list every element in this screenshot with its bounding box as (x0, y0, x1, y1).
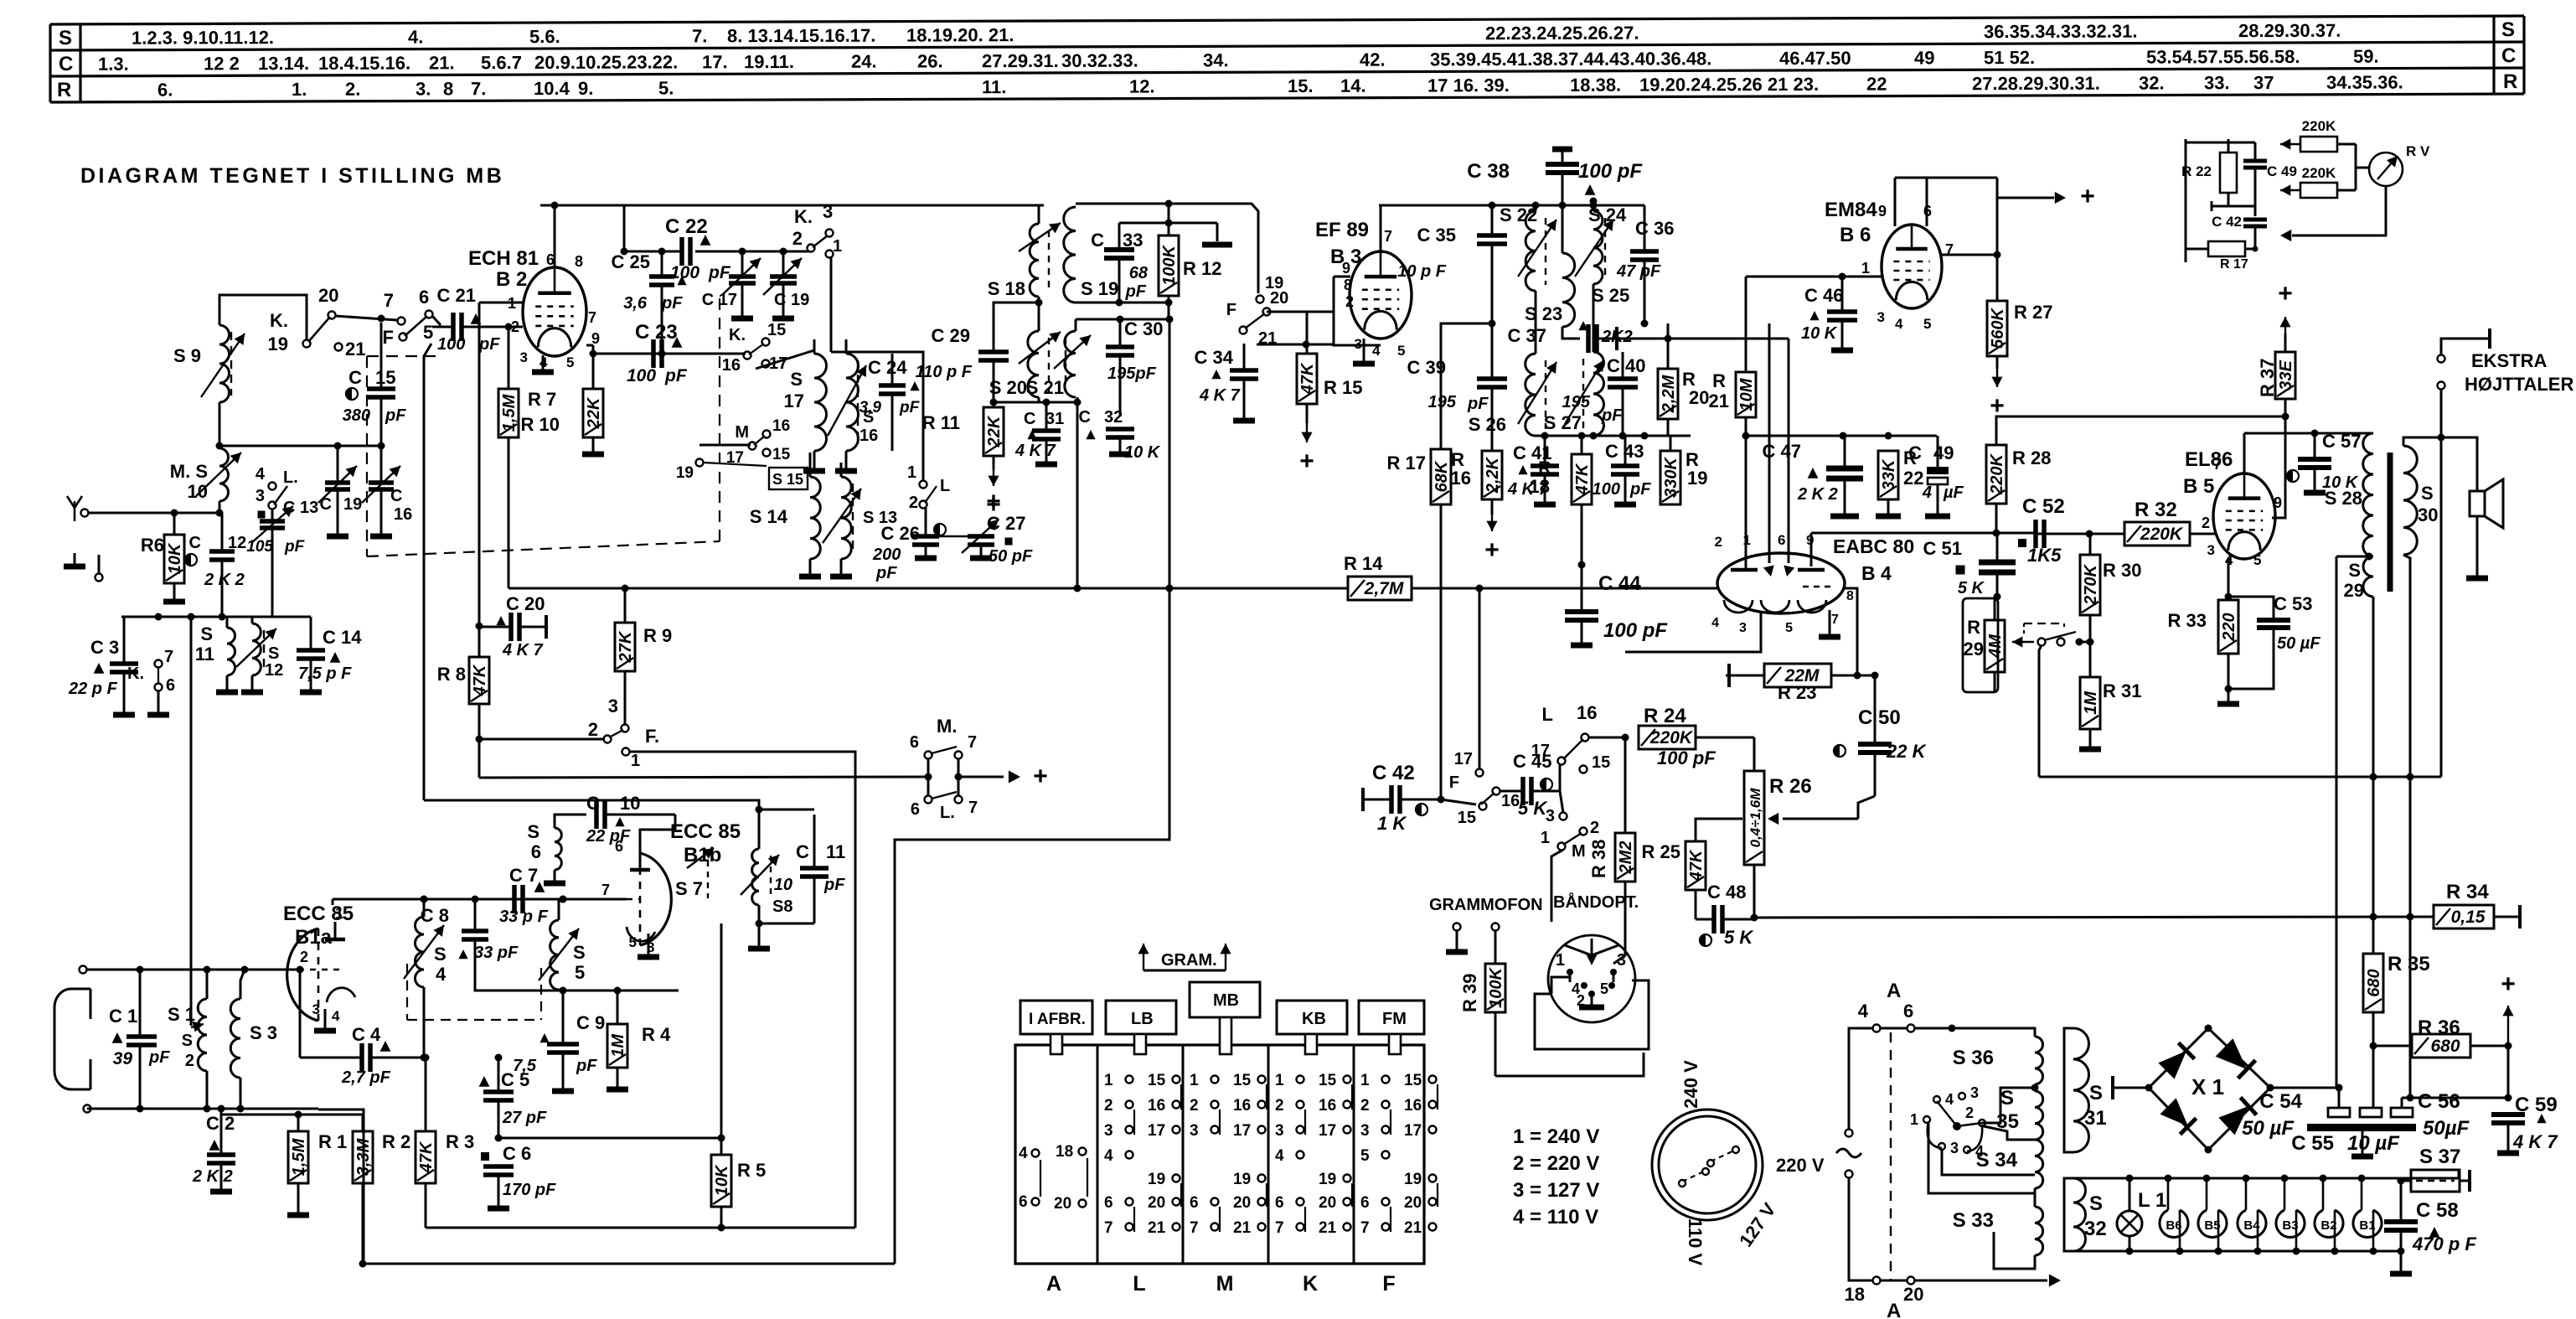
wire rail top y245 (540, 204, 1044, 207)
svg-text:C: C (59, 53, 73, 75)
svg-text:19: 19 (1404, 1171, 1422, 1188)
svg-text:C 6: C 6 (503, 1143, 531, 1164)
svg-text:15: 15 (1458, 809, 1476, 827)
wire grid row to C4 row (299, 970, 302, 1058)
wire pin9 rail y636 (1810, 533, 1813, 566)
svg-text:32.: 32. (2139, 72, 2165, 93)
svg-text:10: 10 (774, 876, 792, 894)
svg-text:9: 9 (1342, 260, 1350, 277)
svg-text:49: 49 (1914, 47, 1934, 68)
svg-text:S 28: S 28 (2325, 488, 2362, 509)
wire rail y736 (121, 616, 258, 618)
svg-text:EKSTRA: EKSTRA (2471, 350, 2548, 371)
svg-text:16: 16 (1233, 1097, 1251, 1115)
svg-text:15: 15 (375, 367, 395, 388)
svg-text:8: 8 (1344, 277, 1352, 293)
svg-text:C 42: C 42 (2212, 214, 2242, 230)
svg-text:6: 6 (1190, 1194, 1199, 1212)
wire speaker feed (2441, 437, 2477, 491)
wire rail y520 above EABC80 (1746, 435, 1937, 437)
svg-text:8. 13.14.15.16.17.: 8. 13.14.15.16.17. (727, 25, 875, 47)
svg-text:R 3: R 3 (446, 1131, 474, 1152)
svg-text:S: S (2348, 560, 2361, 581)
svg-text:22.23.24.25.26.27.: 22.23.24.25.26.27. (1485, 23, 1639, 44)
svg-text:10: 10 (188, 481, 208, 502)
svg-text:K.: K. (794, 206, 813, 227)
svg-text:68: 68 (1129, 264, 1149, 282)
svg-text:S 9: S 9 (173, 345, 201, 366)
svg-text:1: 1 (1104, 1072, 1113, 1089)
svg-text:1: 1 (1275, 1072, 1284, 1089)
svg-text:13.14.: 13.14. (258, 53, 309, 74)
svg-text:R 38: R 38 (1588, 840, 1609, 878)
svg-text:MB: MB (1213, 991, 1239, 1010)
svg-text:7: 7 (968, 799, 978, 817)
svg-text:R 27: R 27 (2014, 302, 2052, 323)
svg-text:16: 16 (860, 427, 878, 445)
svg-text:4 K 7: 4 K 7 (2512, 1131, 2558, 1152)
wire long vertical to FM section (190, 617, 193, 1026)
svg-text:C: C (1079, 408, 1091, 427)
svg-text:2: 2 (300, 949, 308, 965)
svg-text:A: A (1046, 1272, 1061, 1296)
wire antenna to R6/C12 (89, 512, 222, 515)
svg-text:17 16. 39.: 17 16. 39. (1427, 75, 1510, 96)
svg-text:S: S (2501, 18, 2515, 41)
svg-text:7.: 7. (471, 78, 486, 99)
button LB (1106, 1001, 1176, 1034)
svg-text:15: 15 (772, 446, 791, 463)
svg-text:L: L (940, 477, 950, 495)
svg-text:pF: pF (875, 564, 897, 582)
svg-text:S 14: S 14 (750, 506, 788, 527)
svg-text:S 18: S 18 (988, 278, 1025, 299)
svg-text:5: 5 (2253, 552, 2261, 568)
svg-text:9: 9 (1878, 203, 1887, 220)
wire ECH81 pin1 grid column (479, 302, 524, 304)
svg-text:2,7 pF: 2,7 pF (341, 1068, 391, 1087)
tube heaters B6..B1 (2160, 1210, 2188, 1237)
svg-text:220K: 220K (2302, 118, 2336, 134)
svg-text:6.: 6. (157, 80, 173, 101)
svg-text:R 10: R 10 (521, 414, 560, 435)
svg-text:1: 1 (1910, 1111, 1918, 1128)
svg-text:C 53: C 53 (2274, 593, 2312, 614)
arrow + below R11 (993, 469, 994, 486)
svg-text:+: + (2501, 970, 2516, 998)
wire EM84 pin1 left to C46 and R21 (1746, 276, 1882, 278)
svg-text:R 39: R 39 (1459, 974, 1480, 1012)
svg-text:21: 21 (1709, 391, 1729, 411)
svg-text:C 23: C 23 (635, 321, 678, 344)
svg-text:C 38: C 38 (1467, 160, 1510, 183)
svg-text:4: 4 (1945, 1091, 1954, 1108)
svg-text:0,4÷1,6M: 0,4÷1,6M (1747, 788, 1763, 848)
dashed mains divider (1890, 1032, 1892, 1280)
voltage selector dial (1652, 1110, 1763, 1220)
svg-text:2: 2 (1345, 293, 1354, 310)
wire S28/S29 tap to left vertical (2336, 556, 2369, 558)
svg-text:pF: pF (1601, 406, 1623, 425)
svg-text:R 7: R 7 (528, 389, 556, 410)
svg-text:6: 6 (419, 287, 429, 308)
svg-text:B 6: B 6 (1840, 224, 1871, 246)
svg-text:7: 7 (164, 648, 173, 666)
X1 left input terminal (2119, 1087, 2149, 1089)
heater top rail (2073, 1177, 2459, 1180)
svg-text:330K: 330K (1662, 457, 1680, 498)
svg-text:A: A (1887, 1300, 1901, 1319)
svg-text:S 22: S 22 (1500, 204, 1537, 225)
svg-text:18: 18 (1056, 1143, 1073, 1161)
svg-text:17: 17 (1148, 1122, 1165, 1140)
220K resistor top (2300, 137, 2337, 152)
svg-text:L 1: L 1 (2138, 1189, 2166, 1212)
svg-text:C 58: C 58 (2416, 1199, 2459, 1222)
svg-text:105: 105 (246, 538, 273, 556)
svg-text:19: 19 (676, 464, 694, 482)
svg-text:2M2: 2M2 (1617, 841, 1635, 875)
svg-text:6: 6 (531, 841, 541, 862)
svg-text:pF: pF (385, 406, 406, 425)
svg-text:2 = 220 V: 2 = 220 V (1513, 1152, 1599, 1175)
capacitor C42 small top right (2243, 218, 2267, 222)
svg-text:220: 220 (2220, 613, 2238, 641)
svg-text:16: 16 (772, 417, 790, 435)
svg-text:pF: pF (478, 335, 500, 354)
svg-text:S: S (182, 1032, 193, 1050)
svg-text:220K: 220K (2302, 165, 2336, 181)
svg-text:220K: 220K (1649, 728, 1694, 747)
band switch table frame (1015, 1045, 1424, 1264)
svg-text:C 40: C 40 (1607, 355, 1645, 376)
svg-text:GRAMMOFON: GRAMMOFON (1429, 896, 1543, 914)
svg-text:EL86: EL86 (2185, 448, 2233, 471)
svg-text:1,5M: 1,5M (290, 1137, 308, 1176)
svg-text:C 36: C 36 (1635, 218, 1674, 239)
svg-text:2: 2 (1715, 534, 1722, 550)
svg-text:R 17: R 17 (2220, 257, 2248, 272)
svg-text:1: 1 (335, 905, 343, 922)
svg-text:2.: 2. (345, 79, 360, 100)
svg-text:R: R (57, 79, 71, 101)
svg-text:50 µF: 50 µF (2277, 634, 2320, 653)
svg-text:2: 2 (1590, 819, 1599, 837)
svg-text:pF: pF (1629, 480, 1651, 499)
svg-text:R 35: R 35 (2388, 953, 2430, 975)
svg-text:C 7: C 7 (509, 865, 538, 886)
arrow wire from RV down (2292, 186, 2386, 235)
RV meter circle (2369, 153, 2403, 186)
svg-text:S 20: S 20 (989, 377, 1027, 398)
svg-text:470 p F: 470 p F (2412, 1234, 2476, 1254)
svg-text:S8: S8 (772, 897, 792, 916)
svg-text:+: + (1484, 536, 1500, 564)
svg-text:3: 3 (1360, 1122, 1370, 1140)
svg-text:4.: 4. (408, 26, 423, 47)
svg-text:+: + (1299, 447, 1314, 475)
svg-text:F: F (383, 327, 394, 348)
svg-text:31: 31 (1045, 410, 1064, 428)
top right RC network box (2185, 139, 2187, 262)
capacitor C56 50uF (2391, 1108, 2413, 1117)
svg-text:C 4: C 4 (352, 1024, 381, 1045)
svg-text:+: + (2278, 280, 2293, 308)
svg-text:C: C (1091, 230, 1104, 251)
wire vertical x506 down to rail y955 (424, 344, 431, 800)
svg-text:C 42: C 42 (1372, 762, 1415, 784)
mains plug terminals (1846, 1130, 1853, 1137)
svg-text:HØJTTALER: HØJTTALER (2465, 374, 2573, 395)
svg-text:R6: R6 (141, 535, 164, 556)
GRAM arrows (1143, 944, 1144, 970)
svg-text:S: S (573, 942, 586, 963)
svg-text:15: 15 (1592, 753, 1610, 772)
wire EM84 pin7 to R27 column (1942, 254, 1997, 256)
svg-text:6: 6 (615, 838, 623, 855)
wire rail y300 with C22 (624, 251, 682, 253)
svg-text:R: R (1712, 370, 1726, 391)
wire plate top to rail y245 (554, 205, 556, 267)
variable capacitor C19b (770, 274, 797, 279)
svg-text:pF: pF (708, 263, 731, 282)
svg-text:20: 20 (1903, 1284, 1923, 1305)
svg-text:20: 20 (318, 285, 338, 306)
speaker ground (2476, 516, 2479, 577)
coil S8 (752, 849, 759, 905)
svg-text:1.: 1. (292, 79, 307, 100)
svg-text:5: 5 (1360, 1147, 1370, 1165)
svg-text:R 11: R 11 (922, 412, 960, 433)
S19 enclosure box (1076, 204, 1258, 293)
svg-text:R 14: R 14 (1344, 553, 1383, 574)
svg-text:4: 4 (436, 964, 447, 985)
svg-text:26.: 26. (917, 50, 943, 71)
svg-text:27.28.29.30.31.: 27.28.29.30.31. (1972, 73, 2100, 95)
svg-text:ECH 81: ECH 81 (468, 247, 539, 270)
svg-text:S 23: S 23 (1525, 303, 1562, 324)
svg-text:30: 30 (2418, 504, 2438, 525)
svg-text:R 2: R 2 (382, 1131, 410, 1152)
svg-text:S: S (434, 944, 447, 965)
svg-text:10M: 10M (1737, 377, 1756, 411)
svg-text:9: 9 (2274, 494, 2282, 511)
svg-text:F: F (1382, 1272, 1395, 1296)
wire S8 node to C11 (759, 923, 814, 925)
svg-text:FM: FM (1382, 1010, 1407, 1028)
svg-text:21: 21 (1233, 1219, 1252, 1237)
svg-text:X 1: X 1 (2191, 1074, 2224, 1099)
svg-text:27.29.31.: 27.29.31. (982, 50, 1059, 71)
svg-text:47K: 47K (417, 1141, 436, 1173)
speaker (2470, 491, 2485, 516)
wire from F1 down to band table area (629, 752, 855, 1228)
svg-text:220 V: 220 V (1776, 1155, 1825, 1176)
transformer core bar (2388, 453, 2393, 592)
svg-text:7,5 p F: 7,5 p F (298, 665, 352, 683)
EKSTRA HOJTTALER terminals (2438, 355, 2445, 363)
svg-text:12: 12 (265, 661, 283, 680)
svg-text:50µF: 50µF (2423, 1117, 2470, 1140)
svg-text:560K: 560K (1989, 308, 2007, 349)
wire down to R26 (1753, 737, 1756, 771)
svg-text:B 5: B 5 (2183, 475, 2214, 498)
svg-text:17: 17 (1531, 742, 1550, 760)
button MB pressed (1190, 982, 1260, 1017)
wire grid line from C37 to R20/R21 (1617, 338, 1668, 340)
svg-text:16: 16 (722, 356, 741, 375)
svg-text:20: 20 (1270, 289, 1288, 308)
svg-text:195pF: 195pF (1107, 365, 1157, 383)
wire C50 down to wiper (1874, 778, 1877, 796)
svg-text:2: 2 (588, 719, 598, 740)
svg-text:1 K: 1 K (1377, 813, 1407, 834)
svg-text:M: M (1572, 842, 1586, 861)
svg-text:2: 2 (1275, 1097, 1284, 1115)
svg-text:3,6: 3,6 (623, 294, 648, 313)
svg-text:33K: 33K (1880, 458, 1898, 490)
button AFBR (1020, 1001, 1092, 1034)
svg-text:8: 8 (443, 78, 453, 99)
svg-text:6: 6 (910, 733, 919, 752)
svg-text:M.: M. (937, 716, 957, 737)
svg-text:S 15: S 15 (772, 471, 803, 488)
wire rail y927 loop under EL86 (2039, 776, 2441, 778)
svg-text:2: 2 (909, 494, 918, 512)
svg-text:20: 20 (1404, 1194, 1422, 1212)
wire top row y1073 (333, 898, 627, 901)
svg-text:11: 11 (826, 841, 845, 862)
wire R14 rail continue to EABC80 (1500, 587, 1719, 590)
svg-text:pF: pF (661, 294, 683, 313)
svg-text:19: 19 (268, 334, 288, 354)
svg-text:S: S (200, 623, 213, 644)
terminal 19 lower (696, 459, 704, 467)
svg-text:R 17: R 17 (1387, 453, 1426, 473)
svg-text:R 9: R 9 (643, 625, 672, 646)
svg-text:10 p F: 10 p F (1397, 262, 1447, 281)
plus arrow above C59 (2507, 1046, 2510, 1098)
svg-text:10K: 10K (713, 1164, 731, 1196)
svg-text:4 K 7: 4 K 7 (1199, 386, 1241, 405)
arrow + below R16 (1491, 515, 1493, 531)
svg-text:7: 7 (968, 733, 977, 752)
svg-text:270K: 270K (2082, 564, 2100, 606)
svg-text:16: 16 (1319, 1097, 1336, 1115)
svg-text:M. S: M. S (170, 461, 208, 482)
svg-text:12.: 12. (1129, 76, 1155, 97)
svg-text:S 1: S 1 (168, 1004, 195, 1025)
svg-text:19: 19 (343, 495, 362, 514)
svg-text:C 22: C 22 (665, 215, 708, 238)
svg-text:21: 21 (1404, 1219, 1422, 1237)
svg-text:S: S (268, 644, 279, 663)
svg-text:7.: 7. (692, 25, 707, 46)
wire rail y966 over B1b (424, 800, 759, 810)
svg-text:GRAM.: GRAM. (1161, 951, 1217, 970)
svg-text:L.: L. (283, 468, 298, 487)
svg-text:100 pF: 100 pF (1603, 619, 1668, 642)
svg-text:220K: 220K (1988, 453, 2006, 495)
DIN notch top (1565, 945, 1618, 955)
svg-text:4: 4 (1922, 484, 1932, 502)
svg-text:S: S (2000, 1087, 2014, 1110)
svg-text:20: 20 (1319, 1194, 1336, 1212)
wire to + arrow top right (1997, 197, 2054, 199)
svg-text:1: 1 (1541, 829, 1550, 847)
coil S12 variable (252, 623, 261, 675)
EF89 cathode ground (1363, 339, 1365, 362)
svg-text:C 19: C 19 (774, 291, 809, 309)
svg-text:33.: 33. (2204, 72, 2230, 93)
svg-text:3 = 127 V: 3 = 127 V (1513, 1179, 1599, 1202)
wire diode arrows into tube (1768, 323, 1771, 563)
svg-text:20: 20 (1054, 1195, 1071, 1213)
bottom terminals 18/20 (1873, 1277, 1881, 1285)
svg-text:3: 3 (1739, 621, 1747, 635)
svg-text:16: 16 (1404, 1097, 1422, 1115)
svg-text:1: 1 (1556, 951, 1565, 970)
svg-text:3: 3 (1877, 309, 1885, 325)
svg-text:21: 21 (1148, 1219, 1166, 1237)
svg-text:3: 3 (823, 201, 833, 222)
svg-text:C 21: C 21 (437, 285, 476, 306)
svg-text:2: 2 (1104, 1097, 1113, 1115)
svg-text:7: 7 (1831, 613, 1839, 627)
svg-text:R 12: R 12 (1183, 258, 1221, 279)
svg-text:22: 22 (1903, 468, 1923, 489)
svg-text:47K: 47K (1573, 463, 1592, 495)
wire S30 bottom down (2403, 555, 2410, 1098)
wire under IF to C44 (1581, 565, 1583, 588)
svg-text:C 5: C 5 (501, 1069, 529, 1090)
arrow + above R37 (2284, 334, 2287, 352)
svg-text:6: 6 (911, 800, 920, 819)
svg-text:10 µF: 10 µF (2347, 1132, 2400, 1155)
svg-text:100K: 100K (1487, 967, 1505, 1008)
svg-text:4: 4 (332, 1008, 340, 1024)
svg-text:C 24: C 24 (868, 357, 907, 378)
svg-text:4M: 4M (1986, 634, 2005, 659)
svg-text:pF: pF (148, 1048, 170, 1067)
svg-text:35.39.45.41.38.37.44.43.40.36.: 35.39.45.41.38.37.44.43.40.36.48. (1430, 48, 1711, 70)
wire C5/R5 row y1358 (498, 1137, 721, 1140)
svg-text:EABC 80: EABC 80 (1833, 535, 1914, 557)
svg-text:R 5: R 5 (737, 1160, 766, 1181)
svg-text:2,2K: 2,2K (1484, 456, 1502, 494)
svg-text:BÅNDOPT.: BÅNDOPT. (1553, 892, 1639, 912)
svg-text:2,7M: 2,7M (1364, 579, 1404, 598)
svg-text:S 21: S 21 (1026, 377, 1064, 398)
svg-text:7: 7 (384, 290, 394, 311)
wire EF89 grid connections (1267, 311, 1334, 313)
svg-text:15: 15 (1233, 1072, 1252, 1089)
svg-text:100 pF: 100 pF (1578, 160, 1643, 183)
svg-text:16: 16 (1501, 792, 1520, 810)
svg-text:R 28: R 28 (2012, 447, 2051, 468)
svg-text:22K: 22K (985, 415, 1004, 447)
svg-text:C 52: C 52 (2022, 495, 2065, 518)
svg-text:4 K 7: 4 K 7 (1014, 442, 1056, 460)
svg-text:3: 3 (1190, 1122, 1199, 1140)
wire pin8 down to R23 (1843, 588, 1857, 675)
svg-text:7: 7 (1104, 1219, 1113, 1237)
svg-text:5: 5 (629, 934, 637, 950)
svg-text:C 54: C 54 (2259, 1090, 2302, 1113)
svg-text:51 52.: 51 52. (1984, 47, 2035, 68)
svg-text:22: 22 (1866, 74, 1887, 95)
svg-text:4: 4 (1858, 1001, 1869, 1022)
